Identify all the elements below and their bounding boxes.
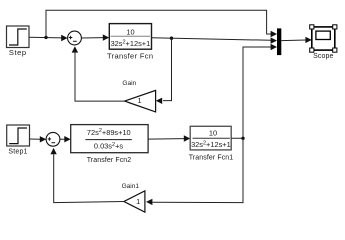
wire branch to mux input 1 bbox=[46, 10, 277, 37]
svg-text:Transfer Fcn1: Transfer Fcn1 bbox=[189, 154, 234, 161]
mux bbox=[277, 28, 281, 55]
transfer function Transfer Fcn bbox=[107, 24, 153, 61]
wire feedback down to Gain1 bbox=[146, 138, 243, 205]
wire Sum to Transfer Fcn bbox=[81, 34, 109, 40]
svg-text:1: 1 bbox=[137, 96, 141, 105]
svg-text:Gain: Gain bbox=[122, 80, 136, 87]
step source Step bbox=[7, 26, 30, 57]
svg-text:10: 10 bbox=[209, 129, 217, 138]
wire Transfer Fcn1 to mux input 3 with junction bbox=[231, 44, 277, 140]
svg-text:0.03s2+s: 0.03s2+s bbox=[94, 142, 123, 151]
transfer function Transfer Fcn1 bbox=[189, 126, 234, 161]
scope Scope bbox=[310, 25, 337, 60]
wire Transfer Fcn2 to Transfer Fcn1 bbox=[148, 135, 190, 141]
wire mux output to Scope bbox=[281, 37, 312, 43]
wire feedback down to Gain bbox=[156, 38, 172, 104]
svg-text:Gain1: Gain1 bbox=[122, 183, 140, 190]
wire Gain1 output to Sum1 bottom input bbox=[50, 148, 124, 203]
sum junction Sum1 bbox=[46, 132, 60, 146]
svg-text:Transfer Fcn2: Transfer Fcn2 bbox=[87, 157, 132, 164]
svg-text:Step: Step bbox=[9, 48, 27, 57]
transfer function Transfer Fcn2 bbox=[71, 125, 148, 165]
svg-text:Scope: Scope bbox=[313, 53, 333, 60]
step source Step1 bbox=[7, 125, 30, 155]
wire Step1 to Sum1 bbox=[30, 136, 47, 142]
wire Gain output to Sum bottom input bbox=[72, 46, 125, 101]
svg-text:72s2+89s+10: 72s2+89s+10 bbox=[87, 128, 131, 137]
wire Sum1 to Transfer Fcn2 bbox=[60, 136, 71, 142]
svg-text:1: 1 bbox=[136, 197, 140, 206]
wire Step to Sum with junction bbox=[29, 35, 68, 41]
sum junction Sum bbox=[68, 31, 82, 45]
svg-text:10: 10 bbox=[126, 27, 134, 36]
svg-text:32s2+12s+1: 32s2+12s+1 bbox=[111, 39, 151, 48]
wire Transfer Fcn to mux input 2 with junction bbox=[152, 37, 278, 44]
gain Gain bbox=[122, 80, 155, 112]
svg-text:Step1: Step1 bbox=[8, 148, 27, 155]
svg-text:Transfer Fcn: Transfer Fcn bbox=[107, 51, 153, 60]
gain Gain1 bbox=[122, 183, 145, 212]
svg-text:32s2+12s+1: 32s2+12s+1 bbox=[191, 140, 231, 149]
